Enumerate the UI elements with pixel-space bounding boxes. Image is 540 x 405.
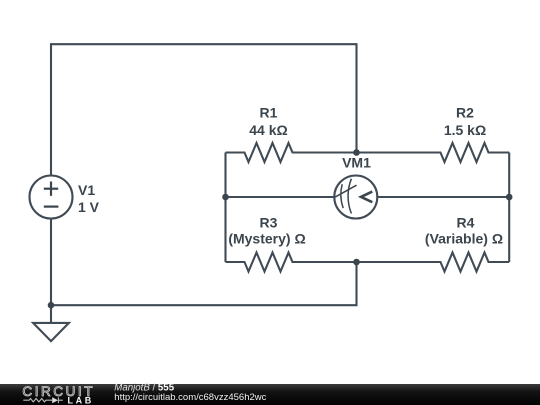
svg-text:1 V: 1 V	[78, 199, 100, 215]
svg-text:(Mystery) Ω: (Mystery) Ω	[228, 230, 305, 246]
svg-text:VM1: VM1	[342, 155, 371, 171]
svg-text:http://circuitlab.com/c68vzz45: http://circuitlab.com/c68vzz456h2wc	[114, 392, 266, 403]
svg-text:R3: R3	[260, 214, 278, 230]
svg-text:1.5 kΩ: 1.5 kΩ	[444, 122, 486, 138]
svg-text:44 kΩ: 44 kΩ	[249, 122, 287, 138]
svg-text:R4: R4	[457, 214, 475, 230]
svg-text:V1: V1	[78, 182, 95, 198]
svg-text:LAB: LAB	[68, 396, 94, 405]
svg-text:R1: R1	[260, 105, 278, 121]
svg-text:R2: R2	[456, 105, 474, 121]
svg-text:(Variable) Ω: (Variable) Ω	[425, 230, 503, 246]
